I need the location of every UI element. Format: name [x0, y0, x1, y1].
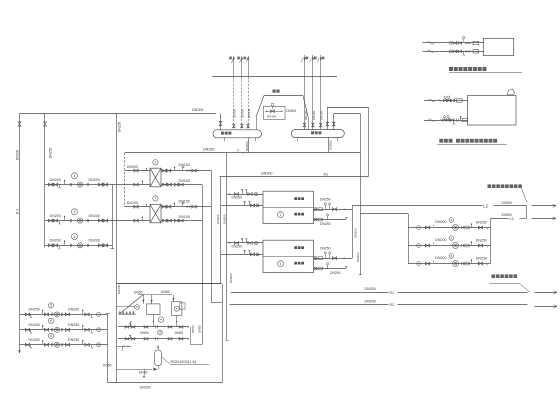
- svg-text:DN140: DN140: [304, 110, 308, 120]
- svg-text:DN300: DN300: [502, 213, 513, 217]
- pump transfer pump below softener: [158, 317, 163, 322]
- svg-text:DN50: DN50: [139, 371, 148, 375]
- wire cooling return R1 DN200: [231, 292, 389, 294]
- svg-text:R1: R1: [324, 172, 329, 176]
- valve on riser R-2: [18, 122, 21, 126]
- svg-text:DN200: DN200: [89, 239, 100, 243]
- svg-text:DN50: DN50: [175, 331, 184, 335]
- svg-text:1: 1: [280, 262, 282, 266]
- svg-text:DN150: DN150: [233, 108, 237, 118]
- wire condenser return vertical DN300 (to L2): [352, 206, 354, 258]
- wire return line to bottom header: [107, 314, 109, 383]
- wire condenser outlet row: [314, 219, 346, 221]
- wire cooling water L2 line: [352, 205, 483, 207]
- valve above collection header riser 3: [319, 123, 322, 127]
- svg-text:DN250: DN250: [245, 141, 249, 151]
- svg-text:DN250: DN250: [203, 147, 214, 151]
- legend fan-coil unit box: [483, 38, 513, 55]
- wire evaporator inlet row: [227, 194, 263, 196]
- svg-text:7: 7: [155, 197, 157, 201]
- wire header drop DN250 to main: [248, 138, 250, 153]
- wire condenser inlet row: [314, 209, 352, 211]
- wire HX lower-right connection DN150: [161, 220, 202, 222]
- valve under riser 2: [241, 124, 244, 128]
- svg-text:DN250: DN250: [68, 323, 79, 327]
- svg-text:DN250: DN250: [117, 284, 121, 294]
- wire chilled return riser 3: [320, 55, 322, 130]
- wire L2 to L1 riser: [526, 206, 528, 219]
- valve under riser 1: [233, 124, 236, 128]
- svg-text:1: 1: [280, 213, 282, 217]
- legend AHU supply pipe: [424, 100, 468, 102]
- svg-text:DN300: DN300: [356, 252, 360, 262]
- svg-text:DN250: DN250: [232, 196, 243, 200]
- svg-text:7: 7: [155, 161, 157, 165]
- wire treatment row 1: [118, 326, 188, 328]
- wire return header DN300 to riser R1: [220, 176, 369, 178]
- wire second left vertical DN250: [44, 113, 46, 247]
- svg-text:4: 4: [74, 210, 76, 214]
- svg-text:6: 6: [50, 319, 52, 323]
- label fan-coil legend title: [449, 67, 453, 71]
- node distribution header 分水器: [213, 130, 262, 138]
- wire cooling pump feed line: [360, 213, 408, 215]
- svg-text:DN250: DN250: [320, 222, 331, 226]
- pump condenser transfer pump 2 (circled 6): [20, 329, 108, 331]
- svg-text:DN300: DN300: [192, 108, 203, 112]
- svg-text:R1: R1: [390, 291, 395, 295]
- node chiller unit box: [263, 191, 314, 223]
- wire HX upper-right connection DN150: [161, 206, 211, 208]
- svg-text:DN200: DN200: [216, 214, 220, 224]
- svg-text:DN250: DN250: [328, 140, 332, 150]
- wire chilled return riser 1: [304, 55, 306, 130]
- wire stub into softener tank with arrows: [143, 295, 145, 304]
- svg-text:DN200: DN200: [89, 178, 100, 182]
- node softener unit box: [146, 304, 160, 315]
- wire DN250 line from drop to HX loop corner: [124, 153, 126, 207]
- wire evaporator outlet row: [221, 254, 263, 256]
- svg-text:DN150: DN150: [179, 199, 190, 203]
- node dosing unit box: [172, 302, 182, 316]
- svg-text:DN250: DN250: [476, 220, 487, 224]
- wire HX upper-right connection DN150: [161, 170, 211, 172]
- svg-text:RSN1200(1.6): RSN1200(1.6): [171, 359, 197, 364]
- pump P4-1 row (chilled water primary pump 1): [45, 184, 150, 186]
- wire inclined make-up water feed: [120, 295, 143, 314]
- svg-text:DN50: DN50: [191, 325, 195, 333]
- valve on DN250 vertical: [44, 122, 47, 126]
- svg-text:DN250: DN250: [320, 198, 331, 202]
- wire cooling pump discharge vertical: [490, 218, 492, 263]
- svg-text:DN200: DN200: [89, 214, 100, 218]
- svg-text:DN200: DN200: [127, 201, 138, 205]
- wire condenser outlet row: [314, 268, 346, 270]
- svg-text:DN250: DN250: [320, 247, 331, 251]
- svg-text:DN150: DN150: [179, 163, 190, 167]
- svg-text:DN300: DN300: [261, 172, 272, 176]
- svg-text:DN200: DN200: [50, 239, 61, 243]
- support legs of collection header: [297, 138, 299, 142]
- svg-text:P: P: [237, 149, 239, 153]
- svg-text:DN200: DN200: [365, 299, 376, 303]
- wire tank bottom connection: [158, 366, 160, 370]
- wire DN250 drop to heat-exchanger loop: [116, 113, 118, 284]
- wire chilled supply riser 3 (dashed): [248, 56, 250, 77]
- pump P4-3 row (chilled water primary pump 3): [45, 245, 112, 247]
- heat exchanger plate unit (circled 7): [150, 204, 161, 223]
- pump dosing pump circle: [174, 306, 179, 311]
- svg-text:DN250: DN250: [68, 338, 79, 342]
- wire pump-group right header vertical: [112, 185, 114, 249]
- svg-text:6: 6: [50, 334, 52, 338]
- wire bypass pipe over headers: [256, 96, 264, 118]
- label circled 1 chiller: [278, 261, 284, 267]
- pump condenser transfer pump 3 (circled 6): [20, 344, 108, 346]
- wire chilled supply riser 2 (dashed): [241, 56, 243, 77]
- svg-text:DN140: DN140: [247, 108, 251, 118]
- valve above collection header riser 2: [312, 123, 315, 127]
- valve above collection header riser 1: [303, 123, 306, 127]
- valve+drain on HX lower-left connection: [134, 183, 138, 186]
- svg-text:DN300: DN300: [502, 201, 513, 205]
- wire riser R-2 left vertical: [19, 113, 21, 353]
- wire bracket lower from collection header: [333, 114, 335, 130]
- svg-text:DN200: DN200: [435, 220, 446, 224]
- wire evaporator outlet row: [221, 205, 263, 207]
- svg-text:DN150: DN150: [312, 110, 316, 120]
- node expansion tank RSN1200: [155, 350, 162, 366]
- svg-text:DN250: DN250: [330, 271, 341, 275]
- svg-text:R-2: R-2: [15, 209, 19, 214]
- wire top distribution bus: [212, 76, 337, 78]
- svg-text:4: 4: [74, 235, 76, 239]
- wire bracket upper from collection header: [327, 107, 329, 129]
- svg-text:DN200: DN200: [435, 256, 446, 260]
- valve motorized bypass valve DN300: [271, 103, 274, 106]
- wire evaporator inlet row: [227, 242, 263, 244]
- svg-text:6: 6: [50, 304, 52, 308]
- heat exchanger plate unit (circled 7): [150, 168, 161, 187]
- svg-text:DN250: DN250: [118, 122, 122, 132]
- svg-text:DN250: DN250: [49, 148, 53, 158]
- svg-text:DN250: DN250: [29, 323, 40, 327]
- svg-text:13: 13: [136, 305, 139, 309]
- svg-text:DN300: DN300: [15, 150, 19, 160]
- svg-text:DN250: DN250: [29, 338, 40, 342]
- wire HX secondary supply vertical: [211, 171, 213, 303]
- legend AHU box: [468, 96, 517, 126]
- node pressure-differential bypass box: [263, 106, 285, 119]
- svg-text:DN150: DN150: [179, 179, 190, 183]
- wire riser connection to bracket: [368, 107, 370, 177]
- wire chilled return riser 2: [312, 55, 314, 130]
- wire HX lower-right connection DN150: [161, 184, 202, 186]
- pump cooling-tower pump 1 (circled 5): [408, 227, 491, 229]
- label circled 1 chiller: [278, 212, 284, 218]
- node water treatment enclosure: [117, 283, 223, 285]
- svg-text:DN50: DN50: [198, 325, 202, 333]
- wire DN250 horizontal main to right: [125, 152, 360, 154]
- svg-text:DN250: DN250: [232, 245, 243, 249]
- legend fan-coil return pipe: [423, 51, 485, 53]
- wire condenser feed vertical DN300 with DN250 end: [360, 114, 362, 276]
- svg-text:DN150: DN150: [241, 108, 245, 118]
- wire treatment row 2: [118, 338, 188, 340]
- svg-text:15: 15: [159, 331, 162, 335]
- wire L2 continuation arrow: [532, 205, 557, 207]
- node collection header 集水器: [291, 130, 344, 138]
- legend fan-coil supply pipe: [423, 42, 485, 44]
- label circled 13 meter: [135, 305, 140, 310]
- legend AHU return pipe: [424, 120, 468, 122]
- svg-text:DN200: DN200: [127, 165, 138, 169]
- svg-text:DN250: DN250: [29, 308, 40, 312]
- svg-text:L2: L2: [483, 203, 488, 208]
- pump condenser transfer pump 1 (circled 6): [20, 314, 108, 316]
- svg-text:DN200: DN200: [365, 287, 376, 291]
- wire HX secondary return vertical: [202, 185, 204, 345]
- svg-text:DN250: DN250: [476, 238, 487, 242]
- support legs of distribution header: [224, 138, 226, 142]
- wire evaporator supply vertical DN200: [220, 177, 222, 284]
- wire cooling water L1 line with arrow: [491, 218, 509, 220]
- node chiller unit box: [263, 240, 314, 272]
- svg-text:DN50: DN50: [103, 364, 112, 368]
- svg-text:DN150: DN150: [319, 110, 323, 120]
- legend motor valve symbol: [462, 36, 465, 39]
- svg-text:DN300: DN300: [267, 115, 277, 119]
- svg-text:DN200: DN200: [435, 238, 446, 242]
- label AHU legend title: [439, 139, 443, 143]
- svg-text:DN50: DN50: [161, 290, 170, 294]
- wire chilled supply riser 1 (dashed): [233, 56, 235, 77]
- wire HX upper-left connection DN200: [125, 170, 150, 172]
- pump P4-2 row (chilled water primary pump 2): [45, 220, 150, 222]
- valve under riser 3: [247, 124, 250, 128]
- label to refrigeration plant note: [492, 274, 496, 278]
- svg-text:DN300: DN300: [353, 228, 357, 238]
- wire condenser inlet row: [314, 258, 352, 260]
- pump cooling-tower pump 2 (circled 5): [408, 245, 491, 247]
- wire cooling pump suction vertical: [408, 214, 410, 264]
- svg-text:DN50: DN50: [140, 331, 149, 335]
- valve+drain on HX lower-left connection: [134, 219, 138, 222]
- svg-text:DN200: DN200: [50, 178, 61, 182]
- svg-text:4: 4: [74, 174, 76, 178]
- svg-text:DN200: DN200: [50, 214, 61, 218]
- wire evaporator return vertical DN300: [226, 153, 228, 340]
- svg-text:DN300: DN300: [286, 109, 296, 113]
- wire HX upper-left connection DN200: [125, 206, 150, 208]
- svg-text:DN50: DN50: [134, 291, 143, 295]
- node strainer arrows group: [119, 311, 121, 314]
- label circled 15: [158, 330, 163, 335]
- wire cooling return R2 DN200: [229, 304, 388, 306]
- wire drain line bottom left: [117, 346, 132, 348]
- label cooling tower connection note: [488, 184, 492, 188]
- wire main chilled-water supply bus DN300: [20, 113, 217, 115]
- svg-text:DN300: DN300: [140, 386, 151, 390]
- svg-text:DN300: DN300: [229, 273, 233, 283]
- svg-text:DN250: DN250: [476, 256, 487, 260]
- svg-text:DN300: DN300: [222, 214, 226, 224]
- pump cooling-tower pump 3 (circled 5): [408, 263, 491, 265]
- svg-text:DN150: DN150: [179, 215, 190, 219]
- legend AHU vent pentagon: [507, 89, 515, 95]
- valve inlet into distribution header: [220, 113, 222, 130]
- svg-text:R2: R2: [390, 303, 395, 307]
- wire header drop DN250 (collection): [328, 138, 330, 153]
- svg-text:DN250: DN250: [68, 308, 79, 312]
- wire treatment row drop: [190, 327, 192, 345]
